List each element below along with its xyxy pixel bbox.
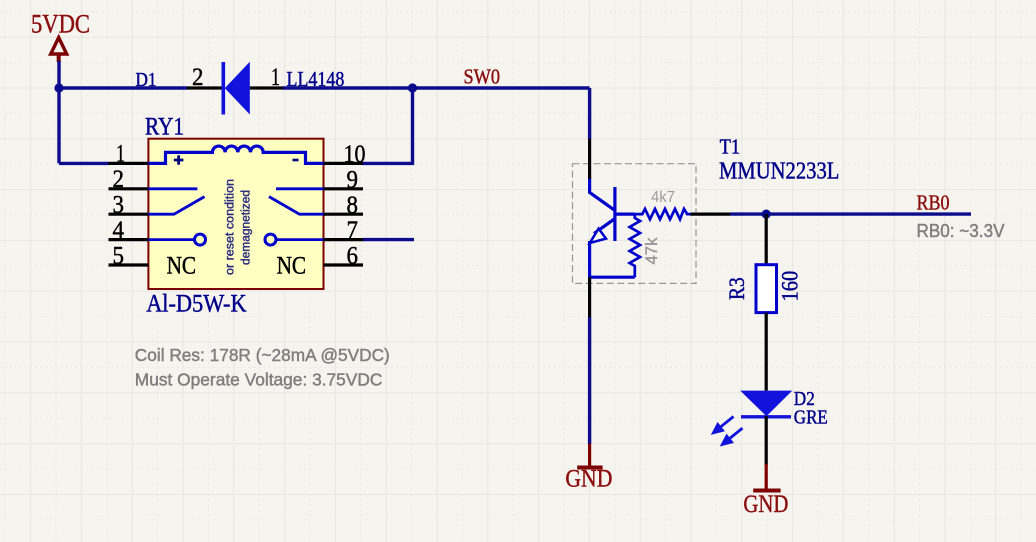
relay RY1 pin 5	[109, 263, 149, 266]
svg-text:SW0: SW0	[464, 65, 501, 89]
diode D1 cathode bar	[222, 62, 226, 115]
svg-text:T1: T1	[720, 135, 741, 159]
relay RY1 pin 1	[109, 162, 149, 165]
svg-text:RB0: ~3.3V: RB0: ~3.3V	[917, 221, 1005, 241]
svg-text:160: 160	[778, 271, 803, 302]
relay RY1 pin 9	[324, 187, 364, 190]
junction at 5VDC	[54, 83, 63, 92]
svg-text:RB0: RB0	[917, 191, 950, 215]
relay RY1 left contact arm	[148, 197, 204, 215]
svg-text:demagnetized: demagnetized	[239, 190, 253, 265]
transistor T1 emitter wire to bottom	[590, 241, 635, 277]
wire junction down to relay pin 10	[362, 88, 413, 163]
relay RY1 left contact fixed	[148, 187, 197, 190]
transistor T1 base lead	[616, 213, 635, 216]
svg-text:Must Operate Voltage: 3.75VDC: Must Operate Voltage: 3.75VDC	[135, 370, 383, 390]
wire 5VDC to D1	[59, 86, 187, 89]
transistor T1 collector lead	[590, 179, 615, 211]
transistor T1 emitter pin	[588, 277, 591, 317]
relay RY1 coil plus sign	[174, 155, 184, 165]
resistor R3 bottom pin	[765, 313, 768, 391]
relay RY1 pin 3	[109, 213, 149, 216]
resistor R3 body	[756, 265, 777, 313]
svg-text:Al-D5W-K: Al-D5W-K	[146, 288, 247, 317]
wire 5VDC vertical	[57, 61, 60, 163]
svg-text:4k7: 4k7	[651, 189, 675, 206]
svg-text:6: 6	[347, 241, 359, 270]
resistor R3 top pin	[765, 214, 768, 265]
relay RY1 pin 6	[324, 263, 364, 266]
svg-text:MMUN2233L: MMUN2233L	[719, 159, 839, 185]
LED D2 bottom pin	[765, 416, 768, 465]
svg-text:5VDC: 5VDC	[31, 9, 90, 39]
svg-text:GND: GND	[743, 489, 788, 518]
relay RY1 coil minus sign	[293, 159, 299, 162]
diode D1 pin 2	[187, 86, 223, 89]
relay RY1 pin 4	[109, 238, 149, 241]
svg-text:D1: D1	[136, 69, 157, 91]
relay RY1 right contact fixed	[276, 187, 324, 190]
svg-text:47k: 47k	[642, 237, 661, 264]
relay RY1 body	[148, 139, 323, 289]
ground symbol left	[577, 444, 602, 468]
svg-text:GRE: GRE	[794, 407, 828, 429]
svg-text:RY1: RY1	[145, 114, 184, 141]
relay RY1 right coil contact circle	[276, 238, 324, 241]
svg-text:1: 1	[271, 62, 280, 91]
transistor T1 base pin	[691, 213, 731, 216]
svg-text:or reset condition: or reset condition	[223, 179, 237, 275]
wire T1 emitter to GND	[588, 317, 591, 444]
diode D1 pin 1	[250, 86, 284, 89]
relay RY1 left coil contact circle	[148, 238, 195, 241]
wire D1 to SW0 corner	[283, 86, 590, 89]
transistor T1 collector pin	[588, 139, 591, 180]
transistor T1 emitter arrow	[590, 229, 606, 243]
power port 5VDC symbol	[51, 38, 67, 63]
transistor T1 emitter lead	[594, 219, 615, 234]
svg-text:NC: NC	[277, 253, 307, 280]
svg-text:R3: R3	[724, 277, 749, 300]
LED D2 cathode bar	[741, 415, 791, 418]
diode D1 body	[225, 62, 250, 115]
relay RY1 pin 7	[324, 238, 364, 241]
wire to relay pin 1	[59, 162, 109, 165]
relay RY1 coil	[148, 146, 323, 163]
transistor T1 base bar	[613, 187, 616, 241]
junction at SW0	[408, 83, 417, 92]
transistor T1 resistor 4k7 zigzag	[635, 209, 691, 219]
relay RY1 pin 8	[324, 213, 364, 216]
LED D2 emission arrow 1	[713, 417, 734, 434]
transistor T1 resistor 47k zigzag	[630, 214, 640, 277]
relay RY1 pin 10	[324, 162, 364, 165]
transistor T1 dashed outline	[573, 164, 697, 284]
svg-text:5: 5	[113, 241, 125, 270]
LED D2 body	[740, 391, 792, 417]
relay RY1 pin 2	[109, 187, 149, 190]
svg-text:GND: GND	[565, 464, 612, 493]
relay RY1 right contact arm	[269, 197, 324, 215]
svg-text:Coil Res: 178R (~28mA @5VDC): Coil Res: 178R (~28mA @5VDC)	[135, 345, 390, 365]
wire relay pin 7 stub	[363, 238, 414, 241]
svg-text:NC: NC	[167, 253, 197, 280]
wire T1 base to RB0	[730, 212, 971, 215]
junction at R3 top	[762, 210, 771, 219]
LED D2 emission arrow 2	[722, 428, 743, 445]
ground symbol right	[753, 464, 780, 491]
wire SW0 down to T1	[588, 88, 591, 139]
